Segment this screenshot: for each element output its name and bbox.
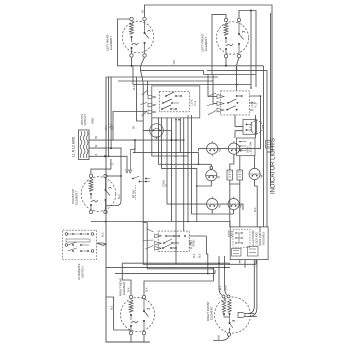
wire oven light leads: [235, 115, 243, 138]
wire feed down x111.1: [110, 77, 112, 148]
junction x171.5 y140: [171, 139, 173, 141]
svg-text:ELEMENT: ELEMENT: [122, 281, 126, 295]
heating element E2 (LEFT FRONT ELEMENT): [216, 20, 248, 56]
wire S2 to right buses: [250, 96, 261, 110]
wire drop x136.5: [137, 77, 144, 121]
svg-text:ELEMENT: ELEMENT: [210, 306, 214, 320]
junction feed x108.6: [108, 156, 110, 158]
wire H1 left stub: [198, 149, 206, 152]
wire D feed left: [122, 263, 131, 295]
switch S2 contacts: [226, 95, 242, 111]
terminal E2-4: [237, 54, 240, 57]
junction L2 console bus: [105, 155, 107, 157]
junction y156-b: [183, 155, 185, 157]
terminal E1-2: [143, 17, 146, 20]
svg-text:BK: BK: [236, 66, 239, 70]
terminal E4-4: [142, 331, 145, 334]
label clock left text: [229, 230, 234, 237]
switch S2 dashed box: [220, 91, 249, 115]
wire console top edge: [106, 76, 218, 78]
label RIGHT FRONT ELEMENT: [206, 301, 214, 321]
svg-text:GRD: GRD: [91, 118, 95, 124]
svg-text:BLK: BLK: [110, 123, 113, 128]
svg-text:L1 N L2 GRD: L1 N L2 GRD: [72, 136, 76, 157]
junction y164.3-a: [198, 164, 200, 166]
indicator light H4: [249, 166, 260, 181]
terminal E5-2: [227, 295, 230, 298]
wire h y273.6: [115, 270, 215, 274]
terminal E3-4: [104, 210, 107, 213]
wire L1 jog x130.3: [130, 140, 135, 150]
svg-text:ELEMENT: ELEMENT: [204, 37, 208, 51]
clock assembly A1 box: [230, 227, 268, 260]
junction N-a: [110, 147, 112, 149]
svg-text:BLK: BLK: [128, 287, 131, 292]
wire harness top y81: [118, 80, 213, 82]
svg-text:BK: BK: [142, 9, 145, 13]
wire E1-2 to top bus: [145, 5, 273, 152]
terminal E5-3: [227, 333, 230, 336]
connector block P7: [266, 141, 271, 149]
wire B drop to S2 b: [236, 75, 238, 85]
junction L2-a: [104, 155, 106, 157]
switch S3 contacts: [239, 141, 246, 152]
label RIGHT REAR ELEMENT: [119, 278, 127, 296]
wire S5 right to x206.4: [189, 236, 206, 248]
svg-text:LIGHT SW: LIGHT SW: [250, 141, 253, 153]
label LEFT REAR ELEMENT: [106, 34, 114, 51]
label BLK pair near feeds: [105, 125, 114, 130]
wire drop x147.5: [147, 81, 149, 95]
junction E2-3: [225, 65, 227, 67]
wire feed down x108.6: [108, 77, 110, 156]
label S1 terminals: [191, 99, 198, 106]
wire bundle x171.5: [171, 118, 173, 222]
indicator light H3: [206, 168, 217, 183]
wire x206.4 from bake down: [206, 236, 207, 254]
terminal E5-1: [222, 295, 225, 298]
junction N drop at E3-2: [120, 175, 122, 177]
wire H5 H6 bottoms bus: [212, 210, 233, 214]
wire harness y164.3 to H3: [159, 164, 212, 166]
wire right bus x263.5: [263, 66, 265, 227]
connector chevrons P2: [207, 93, 224, 115]
label harness connector: [163, 180, 169, 187]
wire right bus x270.5: [270, 13, 272, 186]
indicator light H2: [228, 141, 239, 156]
junction E5 feed b: [224, 267, 226, 269]
wire P3 P4 drops to clock: [230, 180, 240, 227]
svg-text:BK: BK: [133, 125, 136, 129]
wire jog x203.5: [203, 70, 205, 74]
terminal E3-2: [104, 174, 107, 177]
wire drop x140.5 wavy to motor: [141, 70, 144, 130]
label ALTERNATE SWITCH: [77, 263, 85, 280]
clock bottom connector CN1: [232, 249, 242, 257]
connector chevrons P1: [141, 91, 157, 117]
svg-text:BLK: BLK: [254, 207, 257, 212]
wire E1-1 left down to bus y65.8: [118, 19, 264, 66]
terminal E2-1: [224, 18, 227, 21]
junction top bus x251: [250, 10, 252, 12]
label conduit note: [81, 114, 87, 126]
wire console left bus: [106, 77, 150, 342]
wire bus y221.5 to clock: [91, 222, 230, 227]
junction y152.6-b: [187, 152, 189, 154]
switch S3 box: [237, 138, 256, 156]
svg-text:BLK: BLK: [111, 305, 114, 310]
wire L2 from terminal block: [89, 156, 127, 170]
terminal block TB1: [79, 130, 90, 160]
heating element E5 (RIGHT FRONT ELEMENT): [215, 297, 251, 334]
wire right bus x251: [250, 11, 252, 89]
wire motor right lead: [163, 131, 171, 141]
wire bundle x183.7: [183, 118, 185, 231]
switch S1 outer box: [152, 86, 200, 118]
terminal E4-1: [129, 295, 132, 298]
wire E1-3 down: [131, 57, 133, 66]
wire S1 drop x167 staircase to H5: [167, 118, 207, 204]
clock bottom connector CN2: [248, 247, 259, 257]
wire right bus x260.5 to H2: [243, 96, 261, 149]
heating element E1 (LEFT REAR ELEMENT): [122, 19, 154, 56]
wire clock drops small: [240, 260, 245, 268]
junction below S1 b: [178, 119, 180, 121]
connector chevrons P6: [126, 150, 132, 173]
wire E2-3 down to bus: [225, 58, 227, 66]
label clock text: [252, 225, 266, 246]
junction L1-c: [183, 139, 185, 141]
wire N from terminal block to E3-4: [89, 148, 121, 210]
label BLK BLK under S5: [193, 253, 202, 258]
wire D left loop: [106, 297, 131, 332]
wire motor drop to bake zone: [143, 131, 147, 223]
wire S3 top feed: [255, 115, 257, 138]
svg-text:BLK: BLK: [193, 253, 196, 258]
indicator light H6: [228, 197, 239, 212]
svg-text:BLK: BLK: [118, 194, 121, 199]
svg-text:R: R: [95, 154, 98, 156]
label LEFT FRONT ELEMENT: [201, 33, 209, 52]
wire E1-4 down to bus y70.4: [141, 57, 204, 70]
svg-text:BLK: BLK: [105, 125, 108, 130]
probe receptacle J1: [238, 313, 257, 318]
svg-text:ELEMENT: ELEMENT: [75, 191, 79, 205]
svg-text:GRN: GRN: [224, 285, 228, 291]
wire D feed right: [144, 281, 213, 295]
wire clock output to probe 1: [248, 260, 254, 314]
svg-text:BLK: BLK: [133, 85, 136, 90]
wire harness top y84.5: [133, 84, 251, 86]
terminal E4-3: [129, 331, 132, 334]
wire E3-1 feed via y169.1: [91, 159, 111, 174]
connector block P3: [227, 170, 233, 180]
svg-text:YW: YW: [173, 60, 176, 65]
svg-text:P L2: P L2: [194, 100, 197, 106]
wire clock output to probe 2: [249, 260, 257, 317]
terminal E2-3: [224, 54, 227, 57]
wire S3 bottom to P4: [239, 156, 241, 170]
terminal E1-4: [143, 54, 146, 57]
svg-text:LATCH: LATCH: [231, 230, 234, 237]
alternate switch S4 dashed box: [63, 230, 97, 259]
junction E5 feed a: [218, 262, 220, 264]
junction y221.5 at E3-3: [105, 221, 107, 223]
svg-text:INDICATOR LIGHTS: INDICATOR LIGHTS: [271, 138, 277, 194]
wire x147.2 down: [146, 223, 148, 269]
door switch S6 contacts: [132, 176, 150, 200]
wire H5-H6 links: [218, 204, 243, 210]
terminal E3-3: [89, 210, 92, 213]
wire x207.8 down: [207, 254, 209, 274]
svg-text:DOOR: DOOR: [229, 230, 231, 237]
svg-text:SWITCH: SWITCH: [81, 267, 85, 278]
wire bottom h y264.3: [175, 260, 256, 265]
heating element E3 (CENTER COOKTOP ELEMENT): [81, 176, 116, 212]
junction y84.5-a: [236, 84, 238, 86]
indicator light H5: [207, 197, 218, 212]
heating element E4 (RIGHT REAR ELEMENT): [121, 297, 155, 333]
svg-text:ASSEMBLY: ASSEMBLY: [263, 231, 266, 245]
wire D bottom terminals: [131, 335, 144, 342]
svg-text:BLK: BLK: [199, 253, 202, 258]
wire H1-H2 links: [218, 148, 243, 150]
wire x143.2 down to y264.3: [143, 223, 175, 265]
label S3: [247, 141, 253, 153]
wire B drop to S2: [208, 75, 217, 104]
svg-text:BLK: BLK: [146, 287, 149, 292]
wire harness y168.6: [161, 169, 196, 222]
oven light DS1: [243, 120, 263, 135]
wire bundle x188: [187, 115, 189, 222]
terminal E2-2: [237, 18, 240, 21]
junction x188 y221.5: [187, 221, 189, 223]
wire S1 drop x158.5 to y164.3: [158, 118, 160, 164]
junction y264.3: [207, 264, 209, 266]
wire harness y156: [152, 118, 188, 156]
wire h y263.2: [122, 262, 230, 264]
junction x260.5 y96: [260, 95, 262, 97]
clock inner dashed box: [233, 230, 250, 248]
bake switch S5 dashed box: [158, 231, 189, 251]
svg-text:BROIL: BROIL: [193, 239, 196, 247]
svg-text:BK: BK: [95, 135, 98, 139]
motor M1: [150, 124, 164, 138]
junction L1-b: [175, 139, 177, 141]
indicator light H1: [207, 141, 218, 156]
wire drop x133: [132, 66, 134, 85]
connector block P4: [237, 170, 243, 180]
wire bundle x180.3: [179, 118, 181, 153]
switch S1 contacts: [161, 92, 182, 110]
wire H4 top: [254, 156, 256, 168]
label COOKTOP ELEMENT: [71, 189, 79, 205]
junction y273.6: [207, 273, 209, 275]
svg-text:CONDUIT: CONDUIT: [84, 114, 87, 126]
wire x272 top bus lower end: [267, 151, 272, 153]
svg-text:BLK: BLK: [102, 232, 105, 237]
svg-text:ELEMENT: ELEMENT: [109, 36, 113, 50]
wire E2-4 down: [237, 58, 240, 75]
svg-text:FAN: FAN: [156, 136, 159, 141]
wire S1 chevron to left bus: [113, 112, 147, 141]
alternate switch S4 contacts: [65, 233, 94, 253]
wire bottom h y268.8: [147, 268, 213, 270]
wire E2-1 up left: [212, 15, 226, 75]
junction y152.6-a: [175, 152, 177, 154]
junction x251 y88: [250, 87, 252, 89]
wire E5 bottom stub: [213, 336, 229, 340]
wire bundle x191.5 to H bus: [192, 115, 213, 214]
wire bus y74.5 under B: [204, 74, 257, 76]
wire H3 bottom: [197, 181, 212, 186]
junction E1-3: [131, 65, 133, 67]
terminal E1-3: [130, 54, 133, 57]
wire L1 from terminal block: [89, 139, 184, 141]
wire x213.4 to D feed: [212, 269, 214, 281]
svg-text:DR SW: DR SW: [134, 190, 136, 198]
junction y268.8: [213, 268, 215, 270]
switch S1 dashed box: [159, 91, 189, 112]
junction below S1 a: [175, 119, 177, 121]
wire E2-2 up to box top: [239, 11, 256, 88]
wire bundle x176: [175, 118, 177, 264]
label S5 terminals: [190, 239, 196, 247]
terminal E4-2: [142, 295, 145, 298]
label S2 terminals: [251, 101, 258, 108]
terminal E3-1: [89, 174, 92, 177]
wire S1 drop x161.4 to y168.6: [160, 118, 162, 169]
wire motor left lead: [143, 130, 150, 132]
terminal H3 top: [210, 166, 213, 169]
wire bus y70.4 to right bus x267: [204, 70, 268, 227]
junction y156-a: [175, 155, 177, 157]
wire S2 middle contact up: [236, 85, 238, 91]
wire L1 drop x135: [133, 140, 135, 153]
connector chevrons P5: [144, 229, 162, 251]
wire H4 bottom to clock: [255, 180, 258, 227]
svg-text:BLK: BLK: [217, 335, 221, 340]
wire E3-2 right to N drop: [107, 175, 121, 177]
clock internal contacts: [235, 232, 242, 243]
junction y168.6-a: [196, 185, 198, 187]
junction L1-a: [134, 139, 136, 141]
wire h y267.6: [106, 267, 230, 269]
wire P3 up to H2: [230, 154, 234, 170]
wire mid harness y152.6: [133, 153, 198, 165]
bake switch S5 contacts: [162, 235, 186, 249]
terminal E1-1: [130, 17, 133, 20]
wire S4 arrow to bus: [97, 243, 106, 245]
wire E5 feeds YELL GRN: [219, 256, 227, 295]
